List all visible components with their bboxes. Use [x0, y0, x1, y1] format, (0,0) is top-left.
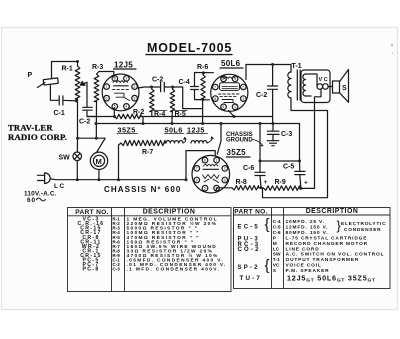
phono pickup P	[28, 72, 33, 79]
ground	[267, 141, 279, 146]
svg-text:7: 7	[196, 167, 198, 171]
tube V2 50L6	[211, 74, 248, 111]
heater bumps 50L6	[166, 141, 183, 143]
svg-text:CO-2: CO-2	[238, 247, 261, 253]
tube V3 35Z5	[192, 155, 230, 193]
svg-text:SP-2: SP-2	[238, 265, 260, 271]
svg-text:GROUND: GROUND	[226, 138, 253, 144]
svg-text:C-6: C-6	[273, 230, 281, 236]
svg-text:C-4: C-4	[273, 219, 281, 225]
resistor R7 heater	[119, 143, 122, 180]
motor M	[90, 152, 107, 169]
svg-text:2: 2	[242, 85, 244, 89]
switch SW	[73, 152, 82, 161]
svg-text:A.C. SWITCH ON VOL. CONTROL: A.C. SWITCH ON VOL. CONTROL	[286, 252, 385, 258]
svg-text:60: 60	[27, 197, 36, 204]
resistor R9	[261, 187, 264, 189]
resistor R3	[99, 72, 114, 78]
svg-text:C-4: C-4	[179, 79, 190, 86]
svg-text:OUTPUT TRANSFORMER: OUTPUT TRANSFORMER	[286, 257, 360, 263]
resistor R1 volume control	[77, 62, 79, 67]
speaker enclosure	[301, 70, 330, 103]
capacitor C5	[295, 161, 305, 188]
svg-text:C-3: C-3	[281, 131, 292, 138]
svg-text:C-5: C-5	[273, 225, 281, 231]
svg-text:C-3: C-3	[112, 267, 120, 272]
filter top line	[260, 124, 300, 173]
chassis ground note	[226, 132, 253, 144]
svg-text:50L6: 50L6	[221, 59, 241, 68]
company name	[8, 123, 67, 142]
svg-text:1: 1	[125, 77, 127, 81]
verticals rails	[142, 117, 144, 124]
svg-text:+: +	[264, 179, 268, 186]
svg-text:5: 5	[204, 187, 206, 191]
svg-text:ELECTROLYTIC: ELECTROLYTIC	[341, 221, 386, 227]
wire 50L6 cathode	[229, 111, 235, 117]
svg-text:DESCRIPTION: DESCRIPTION	[143, 209, 196, 216]
svg-text:{: {	[265, 216, 270, 233]
heater bumps 12J5	[191, 141, 207, 143]
svg-text:1: 1	[216, 159, 218, 163]
svg-text:CONDENSER: CONDENSER	[344, 227, 381, 233]
svg-text:7: 7	[106, 85, 108, 89]
svg-text:LC: LC	[273, 246, 280, 252]
heater labels	[118, 125, 205, 134]
svg-text:R-1: R-1	[62, 66, 73, 73]
svg-text:35Z5: 35Z5	[227, 148, 247, 157]
svg-text:12J5: 12J5	[187, 125, 205, 134]
svg-text:10MFD. 25 V.: 10MFD. 25 V.	[286, 219, 325, 225]
wire R1 bottom down	[77, 101, 79, 138]
capacitor C3	[268, 124, 280, 141]
wire railB to 35Z5 top	[217, 124, 221, 155]
svg-text:VC: VC	[273, 263, 280, 269]
AC riser to 35Z5	[186, 151, 215, 180]
speaker S	[333, 81, 340, 93]
svg-text:12J5: 12J5	[114, 60, 133, 69]
svg-text:{: {	[265, 257, 270, 274]
svg-text:S: S	[342, 85, 347, 92]
rail A	[87, 116, 115, 118]
R1 wiper arrow	[82, 82, 88, 107]
resistor R2	[115, 114, 142, 118]
capacitor C1	[50, 96, 76, 105]
svg-text:DESCRIPTION: DESCRIPTION	[306, 208, 359, 215]
svg-text:T-1: T-1	[292, 63, 302, 70]
wire 12J5 plate to coupling	[138, 87, 152, 88]
svg-text:R-7: R-7	[142, 149, 153, 156]
capacitor C2 output	[268, 65, 278, 124]
svg-text:35Z5: 35Z5	[118, 125, 136, 134]
svg-text:MODEL-7005: MODEL-7005	[147, 41, 232, 55]
resistor R8	[217, 187, 232, 189]
wire 12J5 pin5 to rail	[113, 108, 115, 117]
svg-text:PART NO.: PART NO.	[234, 209, 267, 216]
svg-text:8: 8	[204, 159, 206, 163]
svg-text:LC: LC	[54, 183, 66, 190]
transformer T1	[292, 63, 302, 70]
svg-text:4: 4	[125, 105, 127, 109]
svg-text:6: 6	[106, 97, 108, 101]
wire 50L6 plate to T1	[246, 65, 291, 80]
svg-text:C-1: C-1	[54, 110, 65, 117]
svg-text:R-8: R-8	[236, 179, 247, 186]
capacitor C4	[191, 73, 203, 100]
svg-text:12MFD. 150 V.: 12MFD. 150 V.	[286, 225, 329, 231]
title MODEL-7005	[147, 41, 232, 55]
svg-text:SW: SW	[273, 252, 281, 258]
resistor R4	[151, 87, 153, 89]
svg-text:C-5: C-5	[283, 164, 294, 171]
svg-text:M: M	[273, 241, 277, 247]
svg-text:PC-8: PC-8	[82, 267, 99, 273]
resistor R6	[195, 73, 214, 75]
svg-text:6: 6	[214, 97, 216, 101]
svg-text:5: 5	[222, 105, 224, 109]
svg-text:2: 2	[134, 85, 136, 89]
svg-text:R-9: R-9	[275, 179, 286, 186]
svg-text:50L6: 50L6	[165, 125, 183, 134]
svg-text:T-1: T-1	[273, 257, 280, 263]
core	[303, 74, 306, 96]
voice coil VC	[319, 77, 328, 83]
wire 35Z5 bottom to R8	[216, 188, 217, 191]
capacitor C6	[255, 172, 265, 187]
svg-text:C-2: C-2	[152, 77, 163, 84]
svg-text:R-5: R-5	[175, 111, 186, 118]
svg-text:R-3: R-3	[92, 64, 103, 71]
svg-text:6: 6	[196, 178, 198, 182]
svg-text:3: 3	[134, 97, 136, 101]
svg-text:V C: V C	[319, 77, 328, 83]
capacitor C2 coupling	[152, 82, 173, 91]
wire pickup top to R-1	[43, 78, 58, 85]
svg-text:7: 7	[214, 85, 216, 89]
AC source label	[37, 198, 46, 201]
svg-text:TU-7: TU-7	[240, 275, 263, 282]
svg-text:80MFD. 150 V.: 80MFD. 150 V.	[286, 230, 329, 236]
svg-text:3: 3	[224, 178, 226, 182]
svg-text:C-6: C-6	[243, 165, 254, 172]
svg-text:.1 MFD. CONDENSER 400V.: .1 MFD. CONDENSER 400V.	[127, 267, 221, 273]
svg-text:8: 8	[114, 77, 116, 81]
svg-text:12J5GT 50L6GT 35Z5GT: 12J5GT 50L6GT 35Z5GT	[287, 273, 376, 283]
svg-text:EC-5: EC-5	[238, 224, 260, 230]
rail B	[96, 124, 300, 162]
svg-text:M: M	[96, 157, 102, 166]
svg-text:+: +	[304, 180, 308, 187]
svg-text:R-2: R-2	[133, 109, 144, 116]
svg-text:4: 4	[234, 105, 236, 109]
svg-text:R-6: R-6	[197, 64, 208, 71]
capacitor C2 (grid bypass)	[83, 107, 96, 116]
wire grid 50L6	[173, 87, 210, 124]
parts table	[68, 208, 391, 292]
svg-text:2: 2	[224, 167, 226, 171]
svg-text:L-75 CRYSTAL CARTRIDGE: L-75 CRYSTAL CARTRIDGE	[286, 236, 368, 242]
chassis number	[104, 185, 181, 194]
svg-text:C-2: C-2	[79, 119, 90, 126]
svg-text:C-2: C-2	[256, 92, 267, 99]
junction dots	[75, 60, 302, 190]
line cord plug LC	[45, 173, 51, 184]
junction line	[78, 138, 106, 152]
resistor R5	[171, 87, 173, 89]
svg-text:LINE CORD: LINE CORD	[286, 246, 320, 252]
svg-text:VOICE COIL: VOICE COIL	[286, 263, 322, 269]
svg-text:R-4: R-4	[154, 111, 165, 118]
svg-text:RECORD CHANGER MOTOR: RECORD CHANGER MOTOR	[286, 241, 368, 247]
svg-text:P: P	[28, 72, 33, 79]
svg-text:3: 3	[242, 97, 244, 101]
svg-text:RADIO CORP.: RADIO CORP.	[8, 132, 67, 142]
svg-text:PART NO.: PART NO.	[75, 209, 108, 216]
svg-text:SW: SW	[59, 155, 71, 162]
tube V1 12J5	[102, 74, 139, 111]
svg-text:CHASSIS Nº 600: CHASSIS Nº 600	[104, 185, 181, 194]
